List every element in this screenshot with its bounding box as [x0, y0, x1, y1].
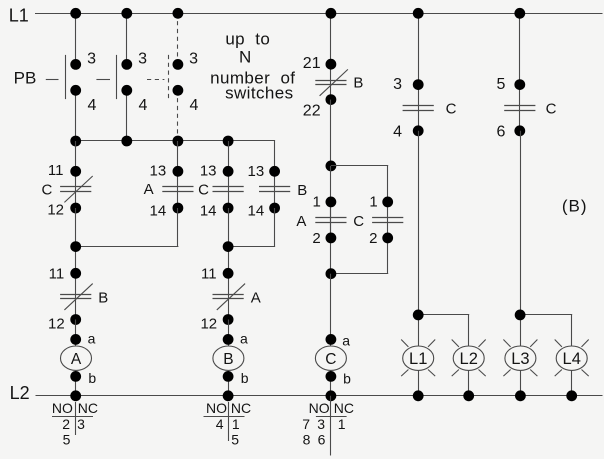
svg-text:6: 6 [318, 432, 326, 448]
svg-text:switches: switches [225, 83, 293, 102]
svg-text:6: 6 [497, 123, 506, 140]
wire link right [228, 208, 275, 273]
svg-text:NC: NC [334, 400, 354, 416]
svg-text:A: A [251, 290, 261, 307]
svg-text:13: 13 [248, 163, 265, 180]
svg-text:4: 4 [87, 97, 96, 114]
svg-text:A: A [144, 181, 154, 198]
svg-text:4: 4 [216, 416, 224, 432]
terminal table coil A [52, 400, 98, 448]
terminal table coil B [204, 400, 252, 448]
svg-text:12: 12 [200, 316, 217, 333]
node L1 label [9, 6, 29, 26]
contact C NO 13-14 [198, 141, 244, 219]
wire L2 rail [36, 395, 603, 397]
svg-text:N: N [239, 48, 252, 67]
junction dot [515, 310, 526, 321]
svg-text:1: 1 [338, 416, 346, 432]
contact C NO 3-4 [393, 13, 456, 140]
label (B) [562, 196, 588, 215]
svg-text:11: 11 [201, 266, 217, 283]
wire bus below pushbuttons [76, 141, 275, 172]
svg-text:L1: L1 [409, 350, 427, 368]
contact C NC 11-12 [41, 141, 92, 219]
svg-text:1: 1 [313, 194, 321, 211]
svg-text:L3: L3 [511, 350, 529, 368]
svg-text:C: C [325, 351, 336, 368]
svg-text:NC: NC [231, 400, 251, 416]
svg-text:2: 2 [312, 230, 320, 247]
svg-text:3: 3 [393, 76, 402, 93]
junction dots on L1 rail [70, 8, 525, 19]
relay coil B [213, 320, 249, 396]
svg-text:A: A [296, 213, 306, 230]
contact A NO 1-2 (parallel left) [296, 166, 346, 274]
svg-text:b: b [343, 370, 351, 386]
relay coil A [61, 320, 97, 396]
relay coil C [315, 274, 351, 396]
pushbutton switch 3 (dashed future switch) [147, 13, 198, 141]
svg-text:3: 3 [189, 50, 198, 67]
node L2 label [10, 383, 30, 403]
svg-text:1: 1 [369, 194, 377, 211]
svg-text:13: 13 [200, 162, 217, 179]
svg-text:3: 3 [317, 416, 325, 432]
svg-text:2: 2 [369, 230, 377, 247]
svg-text:5: 5 [497, 76, 506, 93]
svg-text:12: 12 [47, 202, 64, 219]
svg-text:7: 7 [302, 416, 310, 432]
svg-text:4: 4 [138, 97, 147, 114]
lamp L3 [503, 340, 537, 396]
wire 22 to parallel pair [330, 100, 332, 166]
svg-text:B: B [297, 182, 307, 199]
contact B NO 13-14 [248, 163, 308, 220]
svg-text:14: 14 [150, 202, 167, 219]
svg-text:4: 4 [189, 97, 198, 114]
svg-text:2: 2 [62, 416, 70, 432]
svg-text:PB: PB [14, 69, 37, 88]
svg-text:C: C [41, 182, 52, 199]
wire link left [76, 208, 179, 273]
contact C NO 5-6 [497, 13, 557, 140]
svg-text:21: 21 [303, 55, 321, 72]
junction dot [326, 161, 337, 172]
junction dot [223, 241, 234, 252]
contact A NO 13-14 [144, 141, 194, 219]
svg-text:NO: NO [206, 400, 227, 416]
svg-text:B: B [223, 351, 233, 368]
junction dots on bus [70, 136, 233, 147]
svg-text:B: B [353, 74, 363, 91]
label PB [14, 69, 37, 88]
svg-text:C: C [198, 182, 209, 199]
terminal table coil C [302, 396, 354, 456]
junction dots on L2 rail [70, 390, 577, 401]
svg-text:C: C [546, 100, 557, 117]
svg-text:14: 14 [248, 203, 265, 220]
svg-text:C: C [353, 213, 364, 230]
lamp L1 [401, 340, 435, 396]
svg-text:a: a [88, 330, 96, 346]
annotation up to N number of switches [210, 29, 295, 102]
svg-text:b: b [88, 370, 96, 386]
svg-text:5: 5 [63, 432, 71, 448]
svg-text:a: a [240, 330, 248, 346]
svg-text:B: B [98, 290, 108, 307]
svg-text:A: A [71, 351, 82, 368]
svg-text:5: 5 [231, 432, 239, 448]
svg-text:13: 13 [150, 162, 167, 179]
svg-text:11: 11 [49, 266, 65, 283]
svg-text:NC: NC [78, 400, 98, 416]
junction dot [326, 268, 337, 279]
junction dot [413, 310, 424, 321]
svg-text:1: 1 [232, 416, 240, 432]
svg-text:3: 3 [87, 50, 96, 67]
svg-text:NO: NO [309, 400, 330, 416]
svg-text:L2: L2 [460, 350, 478, 368]
svg-text:3: 3 [77, 416, 85, 432]
svg-text:3: 3 [138, 50, 147, 67]
svg-text:L2: L2 [10, 383, 30, 403]
contact A NC 11-12 [200, 266, 260, 333]
svg-text:L1: L1 [9, 6, 29, 26]
svg-text:up to: up to [225, 29, 270, 48]
contact B NC 21-22 [303, 13, 364, 119]
svg-text:(B): (B) [562, 196, 588, 215]
svg-text:L4: L4 [563, 350, 581, 368]
svg-text:b: b [241, 370, 249, 386]
lamp L4 [555, 340, 589, 396]
svg-text:11: 11 [48, 162, 64, 179]
svg-text:4: 4 [393, 123, 402, 140]
svg-text:NO: NO [52, 400, 73, 416]
contact B NC 11-12 [48, 266, 108, 333]
pushbutton switch 2 [96, 13, 147, 141]
lamp L2 [452, 340, 486, 396]
svg-text:14: 14 [200, 202, 217, 219]
svg-text:C: C [446, 100, 457, 117]
pushbutton PB switch 1 [46, 13, 97, 141]
wire lamp branch 1 [418, 131, 469, 346]
svg-text:22: 22 [303, 103, 321, 120]
wire lamp branch 2 [520, 131, 572, 346]
junction dot [70, 241, 81, 252]
svg-text:8: 8 [303, 432, 311, 448]
contact C NO 1-2 (parallel right) [331, 166, 403, 274]
wire L1 rail [35, 13, 603, 15]
svg-text:12: 12 [48, 316, 65, 333]
svg-text:a: a [342, 332, 350, 348]
